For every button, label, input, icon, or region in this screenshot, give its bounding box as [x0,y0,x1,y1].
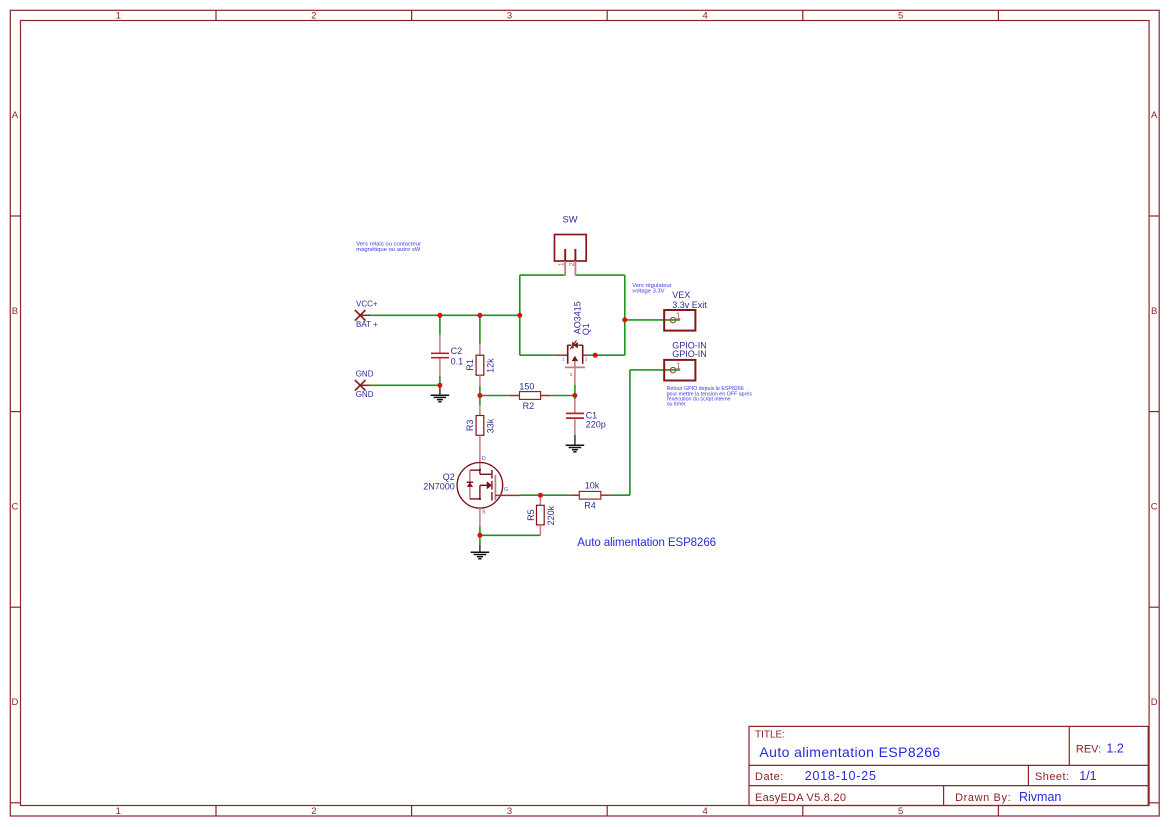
svg-text:GPIO-IN: GPIO-IN [672,349,707,359]
svg-text:3: 3 [570,372,573,377]
svg-text:A: A [12,110,19,121]
wire VCC horizontal [370,314,520,316]
svg-text:A: A [1151,110,1158,121]
ground (Q2 source) [471,545,490,559]
netflag GND [355,370,374,399]
junction GND/C2 [437,383,442,388]
wire Q2 source stub [479,526,481,535]
ground (C2) [431,385,450,401]
svg-text:C: C [1151,501,1158,512]
wire Q2 gate to R4 junction [520,494,570,496]
wire C2 bottom stub [439,376,441,386]
svg-text:0.1: 0.1 [451,356,464,366]
svg-text:10k: 10k [585,481,600,491]
svg-text:D: D [1151,697,1158,708]
resistor R4 [570,481,611,511]
svg-text:2N7000: 2N7000 [423,481,455,491]
connector VEX [664,290,707,330]
svg-text:G: G [504,487,508,493]
transistor Q1 AO3415 [555,301,591,384]
junction R1/R2/R3 [477,393,482,398]
wire GPIO to R4 [610,494,630,496]
svg-text:33k: 33k [486,418,496,433]
wire SW left vertical [519,275,521,315]
wire to Q1 source [520,354,555,356]
svg-text:1: 1 [676,311,681,321]
wire C1 top stub [574,396,576,400]
connector SW [555,215,587,276]
wire bottom ground stub [479,535,481,544]
junction R4/R5/Q2 gate [538,493,543,498]
resistor R5 [526,495,556,535]
junction VCC/SW [517,313,522,318]
svg-text:1: 1 [557,262,566,266]
resistor R2 [510,381,550,411]
svg-text:Auto alimentation ESP8266: Auto alimentation ESP8266 [759,744,940,760]
svg-text:1: 1 [676,361,681,371]
svg-text:B: B [12,306,18,317]
capacitor C1 [566,399,606,435]
wire bottom horizontal [480,534,541,536]
svg-text:R5: R5 [526,509,536,521]
svg-text:R1: R1 [465,359,475,371]
svg-text:ou timer.: ou timer. [667,402,687,408]
svg-text:Date:: Date: [755,771,784,783]
svg-text:D: D [482,456,486,462]
TITLE BLOCK [749,726,1148,805]
wire Q1 drain to corner [588,354,625,356]
svg-text:C2: C2 [451,346,463,356]
svg-text:220k: 220k [546,505,556,525]
svg-text:D: D [11,697,18,708]
connector GPIO-IN [664,340,707,380]
wire SW top horizontal [520,274,565,276]
svg-text:12k: 12k [486,358,496,373]
annotation: vers relais [356,242,421,253]
wire SW right vertical [624,275,626,355]
svg-text:3: 3 [507,806,512,817]
svg-text:1.2: 1.2 [1106,741,1123,755]
svg-text:Q2: Q2 [443,472,455,482]
wire R3 top stub [479,396,481,406]
svg-text:Sheet:: Sheet: [1035,771,1070,783]
svg-text:R2: R2 [523,401,535,411]
wire GND horizontal [370,384,440,386]
svg-text:3.3v Exit: 3.3v Exit [672,300,707,310]
svg-text:C: C [11,501,18,512]
svg-text:R4: R4 [584,501,596,511]
svg-text:4: 4 [702,806,707,817]
wire R1 top stub [479,315,481,344]
wire R2 right [550,395,575,397]
wire C2 top stub [439,315,441,335]
svg-text:GND: GND [356,390,374,399]
svg-text:SW: SW [563,215,578,225]
svg-text:GND: GND [356,370,374,379]
svg-text:Drawn By:: Drawn By: [955,792,1011,804]
svg-text:150: 150 [519,381,534,391]
svg-text:5: 5 [898,806,903,817]
wire Q1 gate stub [574,385,576,396]
svg-text:magnétique ou autre sW: magnétique ou autre sW [356,247,421,253]
svg-text:EasyEDA V5.8.20: EasyEDA V5.8.20 [755,792,846,804]
wire GPIO horizontal [630,369,680,371]
svg-text:1: 1 [562,357,565,362]
svg-text:1: 1 [116,10,121,21]
wire VCC junction down to Q1 source row [519,315,521,355]
svg-text:1/1: 1/1 [1079,769,1096,783]
svg-text:voltage 3.3V: voltage 3.3V [632,288,664,294]
svg-text:2: 2 [311,806,316,817]
svg-text:VEX: VEX [672,290,690,300]
svg-text:Auto alimentation ESP8266: Auto alimentation ESP8266 [577,537,716,549]
junction R2/C1/Q1 gate [572,393,577,398]
wire R1 bottom stub [479,386,481,396]
svg-text:Rivman: Rivman [1019,790,1061,804]
svg-text:VCC+: VCC+ [356,299,378,308]
junction Q2 source/R5 [477,533,482,538]
svg-text:220p: 220p [586,419,606,429]
svg-text:4: 4 [702,10,707,21]
junction VCC/C2 [437,313,442,318]
junction VCC/R1 [477,313,482,318]
svg-text:Q1: Q1 [581,323,591,335]
wire GPIO vertical [629,370,631,495]
svg-text:2: 2 [311,10,316,21]
netflag VCC+ [355,299,378,329]
SCHEMATIC [355,215,752,559]
svg-text:TITLE:: TITLE: [755,730,785,741]
ground (C1) [566,435,585,452]
capacitor C2 [431,335,463,376]
wire R2 left [480,395,510,397]
annotation: vers regulateur [632,283,671,294]
svg-text:2: 2 [567,262,576,266]
junction Q1 drain [593,353,598,358]
resistor R1 [465,344,496,386]
svg-text:B: B [1151,306,1157,317]
svg-text:2018-10-25: 2018-10-25 [805,769,877,783]
wire VEX tap [625,319,680,321]
svg-text:REV:: REV: [1076,743,1101,755]
svg-text:S: S [482,510,486,516]
svg-text:2: 2 [585,357,588,362]
svg-text:BAT +: BAT + [356,320,378,329]
svg-text:5: 5 [898,10,903,21]
junction VEX tap [622,317,627,322]
annotation: retour GPIO [667,386,753,407]
svg-text:R3: R3 [465,420,475,432]
svg-text:3: 3 [507,10,512,21]
transistor Q2 2N7000 [423,456,519,526]
svg-text:1: 1 [116,806,121,817]
resistor R3 [465,405,496,470]
